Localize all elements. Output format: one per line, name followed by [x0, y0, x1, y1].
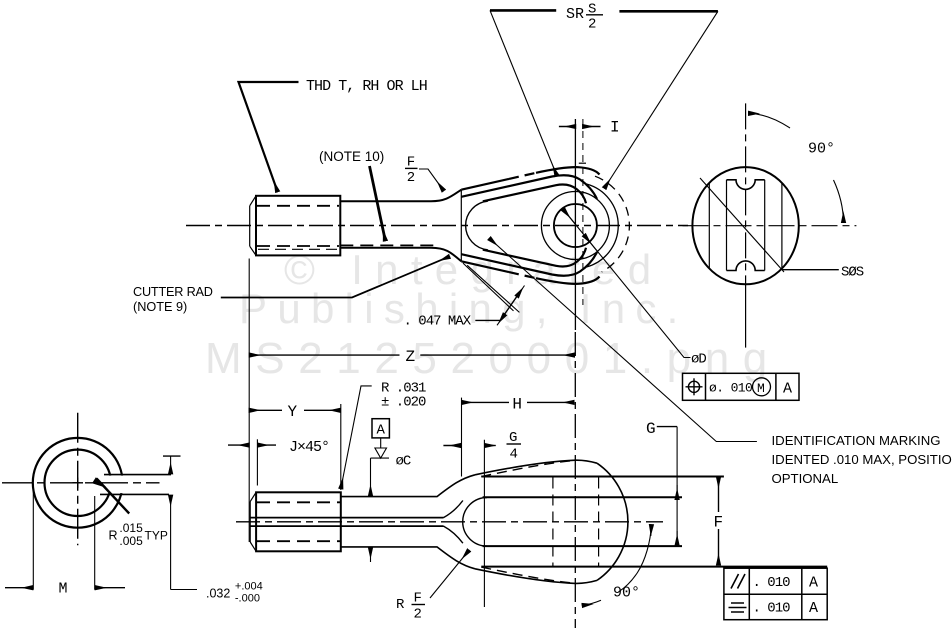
svg-text:OPTIONAL: OPTIONAL [772, 471, 839, 486]
slot flare top (cutter radius) [444, 501, 463, 518]
top notch with half circle [727, 180, 765, 190]
G/4 right extension [483, 440, 485, 607]
90 degree arc lower with arrow [834, 180, 844, 222]
slot lower edge (L3 mirror) [483, 248, 586, 267]
dimension Y [249, 409, 282, 411]
dimension G/4 [443, 445, 460, 447]
notch top edge [104, 474, 171, 476]
slot upper edge (L3) [483, 185, 586, 204]
bottom view horizontal centerline [236, 521, 663, 523]
thread runout dashed line [340, 244, 438, 246]
center cross [73, 482, 84, 484]
eye vertical centerline [574, 119, 576, 330]
sphere top tick [579, 162, 586, 164]
NOTE 10 thick arrow [370, 166, 386, 241]
svg-text:IDENTIFICATION MARKING: IDENTIFICATION MARKING [772, 433, 941, 448]
race view vertical centerline [77, 413, 79, 546]
svg-text:A: A [809, 600, 818, 617]
svg-text:A: A [783, 380, 792, 397]
slot flare bottom (cutter radius) [444, 526, 463, 543]
dimension Z [250, 354, 400, 356]
svg-text:R: R [396, 597, 405, 613]
svg-text:-.000: -.000 [235, 593, 260, 605]
svg-text:(NOTE 9): (NOTE 9) [133, 300, 187, 314]
centerline between views [574, 332, 576, 628]
bottom shank top line with fillet [341, 475, 475, 497]
spherical radius dashed arc [595, 176, 629, 272]
svg-text:2: 2 [414, 607, 422, 623]
race edge verticals outer [708, 183, 710, 269]
M extension lines [32, 490, 34, 590]
J right extension line [256, 439, 258, 485]
svg-text:Z: Z [406, 348, 416, 366]
head band inner line top (L2) [461, 175, 597, 199]
svg-text:± .020: ± .020 [381, 395, 426, 411]
.032 dimension [163, 455, 181, 457]
thread chamfer vertical [249, 206, 251, 246]
label SOS with leader [782, 269, 839, 271]
thread minor diameter dashed bottom [257, 245, 339, 247]
svg-text:M: M [757, 381, 765, 396]
end view vertical centerline [745, 103, 747, 290]
dimension I [559, 126, 576, 128]
shank top line [340, 190, 461, 202]
parallel symbol [731, 574, 745, 589]
90 degree arc bottom view [619, 525, 652, 592]
R F/2 leader [430, 551, 469, 599]
head right cap arc [597, 463, 628, 580]
fork inner top edge [483, 496, 682, 498]
svg-text:THD T, RH OR LH: THD T, RH OR LH [306, 78, 427, 95]
svg-text:A: A [809, 575, 818, 592]
identification leader [490, 239, 757, 442]
datum A flag [372, 419, 389, 438]
svg-text:2: 2 [407, 170, 415, 186]
dimension M [5, 587, 33, 589]
eye hole circle [554, 204, 597, 247]
svg-text:2: 2 [588, 17, 596, 33]
slot outer top edge [481, 476, 724, 478]
svg-text:øD: øD [691, 352, 706, 368]
svg-text:R: R [109, 529, 118, 543]
bottom thread minor dashed lines [257, 501, 340, 503]
svg-text:øC: øC [396, 454, 411, 470]
svg-text:TYP: TYP [145, 529, 168, 543]
bottom notch with half circle [727, 261, 765, 271]
svg-text:.015: .015 [119, 521, 143, 535]
end view horizontal centerline [683, 225, 857, 227]
svg-text:. 010: . 010 [753, 575, 791, 591]
R.031 leader [341, 386, 372, 488]
F/2 leader [419, 169, 444, 191]
parallelism and symmetry FCF table [724, 568, 827, 620]
svg-text:. 010: . 010 [753, 601, 791, 617]
svg-text:J×45°: J×45° [289, 439, 329, 456]
SR left leader line [490, 10, 557, 175]
thread chamfer diagonals [250, 196, 256, 256]
thread root second dashed bottom [258, 248, 339, 250]
.047 extension lines pair [463, 263, 514, 311]
notch bottom edge [100, 493, 169, 495]
dimension J x 45 [228, 444, 249, 446]
feature control frame position [683, 373, 800, 400]
90 degree arc upper [749, 113, 790, 128]
head band inner line bottom (L2 mirror) [461, 252, 597, 276]
svg-text:90°: 90° [808, 141, 835, 158]
slot outer bottom edge [481, 566, 827, 568]
THD leader [239, 82, 299, 192]
svg-text:A: A [377, 423, 386, 439]
svg-text:M: M [59, 581, 68, 598]
svg-text:H: H [512, 395, 522, 413]
svg-text:CUTTER RAD: CUTTER RAD [133, 285, 213, 299]
svg-text:90°: 90° [613, 585, 640, 602]
symmetry symbol [729, 603, 747, 612]
head dome top outline [475, 460, 597, 475]
svg-text:F: F [714, 514, 724, 532]
svg-text:I: I [610, 119, 620, 137]
slot left end semicircle [466, 201, 488, 250]
dimension H [462, 401, 509, 403]
bottom thread chamfer vertical [249, 502, 251, 542]
head end arc r43 [587, 184, 619, 267]
svg-text:SØS: SØS [841, 265, 864, 281]
bottom thread chamfer diagonals [250, 492, 256, 551]
head outer taper top (L1) [461, 179, 509, 190]
svg-text:Y: Y [288, 403, 298, 421]
head dome bottom hidden dashed [481, 567, 573, 583]
head dome bottom outline [475, 569, 597, 584]
bottom shank bottom line with fillet [341, 547, 475, 569]
Z left extension line [248, 259, 250, 543]
shank bottom line [340, 248, 461, 261]
svg-text:G: G [646, 420, 656, 438]
bore edge verticals [726, 180, 728, 271]
svg-text:(NOTE 10): (NOTE 10) [319, 149, 384, 164]
slot edge lines through shank [250, 517, 443, 519]
section diagonal [700, 178, 784, 272]
M circle modifier [753, 378, 771, 396]
centerline horizontal top view [186, 225, 688, 227]
svg-text:4: 4 [510, 447, 518, 463]
fork inner bottom edge [483, 545, 682, 547]
label OD with leader [563, 209, 691, 358]
svg-text:.005: .005 [119, 534, 143, 548]
Y right extension line [340, 404, 342, 490]
svg-text:. 047 MAX: . 047 MAX [404, 314, 472, 330]
svg-text:ø. 010: ø. 010 [709, 381, 752, 396]
bearing race circle [541, 192, 609, 260]
notch white cut [96, 476, 126, 494]
thread minor diameter dashed top [257, 205, 339, 207]
svg-text:SR: SR [566, 6, 584, 23]
.047 leader with arrows [475, 290, 521, 321]
bottom thread rectangle [256, 492, 341, 551]
outer ring circle [33, 438, 123, 528]
thread body rectangle [256, 196, 340, 256]
datum/OC leader vertical [371, 457, 390, 459]
hidden hole edges dashed verticals [552, 478, 554, 567]
CUTTER RAD leader [221, 257, 449, 298]
inner ring circle [44, 450, 110, 516]
SR right leader line [605, 11, 718, 188]
sphere center dashed vertical [582, 119, 584, 305]
head outer taper bottom (L1 mirror) [461, 261, 509, 272]
head transition vertical edge [460, 190, 462, 262]
position symbol [686, 378, 703, 395]
R .015/.005 TYP leader [97, 479, 130, 514]
head dome top hidden dashed [481, 461, 573, 477]
svg-text:+.004: +.004 [235, 581, 263, 593]
race view horizontal centerline [2, 482, 160, 484]
fork inner left U arc [463, 498, 487, 547]
ball outline ellipse [692, 167, 798, 284]
H left extension [461, 398, 463, 477]
svg-text:.032: .032 [206, 587, 230, 601]
svg-text:IDENTED .010 MAX, POSITION: IDENTED .010 MAX, POSITION [772, 452, 952, 467]
dimension F [718, 477, 720, 512]
label SR S/2 with V leaders [490, 9, 556, 12]
